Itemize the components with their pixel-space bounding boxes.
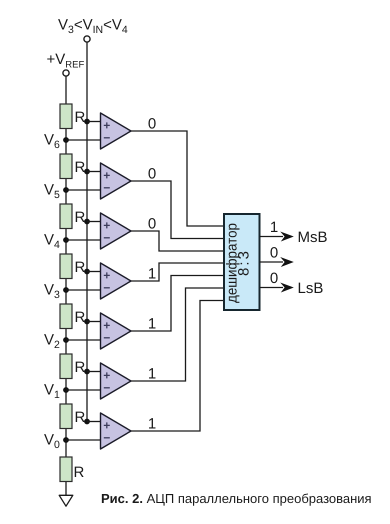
op-amp comparator U7 <box>101 413 132 449</box>
svg-text:MsB: MsB <box>298 229 328 246</box>
wire: VIN bus to comparator U2 non-inverting input <box>87 171 101 173</box>
junction VIN bus to U2 <box>84 169 90 175</box>
wire: tap V4 to comparator U3 inverting input <box>66 239 101 241</box>
arrow: decoder output 2 <box>280 257 294 267</box>
wire: VIN vertical bus <box>86 42 88 421</box>
svg-text:R: R <box>75 409 86 426</box>
wire: tap V6 to comparator U1 inverting input <box>66 139 101 141</box>
resistor R3 <box>60 204 72 229</box>
wire: VIN bus to comparator U1 non-inverting input <box>87 121 101 123</box>
op-amp comparator U6 <box>101 363 132 399</box>
wire: resistor ladder vertical <box>65 76 67 495</box>
resistor R4 <box>60 254 72 279</box>
svg-text:R: R <box>75 209 86 226</box>
wire: VIN bus to comparator U4 non-inverting input <box>87 271 101 273</box>
op-amp comparator U3 <box>101 213 132 249</box>
svg-text:1: 1 <box>270 219 278 236</box>
wire: U5 output to decoder input 5 <box>131 276 224 332</box>
svg-text:0: 0 <box>270 245 278 262</box>
svg-text:R: R <box>75 109 86 126</box>
wire: decoder output 1 <box>260 236 283 238</box>
resistor R5 <box>60 304 72 329</box>
wire: tap V2 to comparator U5 inverting input <box>66 339 101 341</box>
op-amp comparator U1 <box>101 113 132 149</box>
junction VIN bus to U1 <box>84 119 90 125</box>
wire: tap V1 to comparator U6 inverting input <box>66 389 101 391</box>
resistor R8 (bottom) <box>60 457 72 482</box>
resistor R1 <box>60 104 72 129</box>
junction V4 on ladder <box>63 237 69 243</box>
wire: U4 output to decoder input 4 <box>131 263 224 281</box>
terminal VIN (open circle) <box>84 36 90 42</box>
resistor R2 <box>60 154 72 179</box>
junction VIN bus to U3 <box>84 219 90 225</box>
wire: VIN bus to comparator U6 non-inverting input <box>87 371 101 373</box>
wire: tap V3 to comparator U4 inverting input <box>66 289 101 291</box>
arrow: decoder output 1 <box>280 232 294 242</box>
svg-text:R: R <box>75 159 86 176</box>
wire: tap V0 to comparator U7 inverting input <box>66 439 101 441</box>
junction VIN bus to U6 <box>84 369 90 375</box>
wire: VIN bus to comparator U3 non-inverting input <box>87 221 101 223</box>
junction V3 on ladder <box>63 287 69 293</box>
junction V2 on ladder <box>63 337 69 343</box>
wire: U1 output to decoder input 1 <box>131 131 224 226</box>
svg-text:1: 1 <box>148 316 156 333</box>
resistor R7 <box>60 404 72 429</box>
decoder U8 дешифратор 8:3 <box>224 214 260 310</box>
svg-text:0: 0 <box>148 216 156 233</box>
junction VIN bus to U7 <box>84 419 90 425</box>
svg-text:R: R <box>75 359 86 376</box>
junction VIN bus to U5 <box>84 319 90 325</box>
svg-text:LsB: LsB <box>298 280 324 297</box>
op-amp comparator U2 <box>101 163 132 199</box>
wire: U7 output to decoder input 7 <box>131 301 224 432</box>
wire: VIN bus to comparator U5 non-inverting input <box>87 321 101 323</box>
wire: decoder output 3 <box>260 287 283 289</box>
svg-text:R: R <box>74 464 85 481</box>
junction V0 on ladder <box>63 437 69 443</box>
svg-text:8:3: 8:3 <box>236 251 253 276</box>
op-amp comparator U4 <box>101 263 132 299</box>
op-amp comparator U5 <box>101 313 132 349</box>
ground <box>59 495 73 506</box>
wire: U2 output to decoder input 2 <box>131 181 224 239</box>
svg-text:1: 1 <box>148 416 156 433</box>
svg-text:R: R <box>75 309 86 326</box>
terminal +VREF (open circle) <box>63 70 69 76</box>
junction V1 on ladder <box>63 387 69 393</box>
wire: tap V5 to comparator U2 inverting input <box>66 189 101 191</box>
svg-text:1: 1 <box>148 366 156 383</box>
svg-text:0: 0 <box>148 166 156 183</box>
wire: VIN bus to comparator U7 non-inverting input <box>87 421 101 423</box>
wire: U6 output to decoder input 6 <box>131 288 224 381</box>
svg-text:0: 0 <box>270 270 278 287</box>
arrow: decoder output 3 <box>280 283 294 293</box>
junction V6 on ladder <box>63 137 69 143</box>
svg-text:Рис. 2. АЦП параллельного прео: Рис. 2. АЦП параллельного преобразования <box>101 491 372 506</box>
wire: U3 output to decoder input 3 <box>131 231 224 251</box>
svg-text:0: 0 <box>148 116 156 133</box>
wire: decoder output 2 <box>260 261 283 263</box>
svg-text:1: 1 <box>148 266 156 283</box>
resistor R6 <box>60 354 72 379</box>
junction V5 on ladder <box>63 187 69 193</box>
junction VIN bus to U4 <box>84 269 90 275</box>
svg-text:R: R <box>75 259 86 276</box>
